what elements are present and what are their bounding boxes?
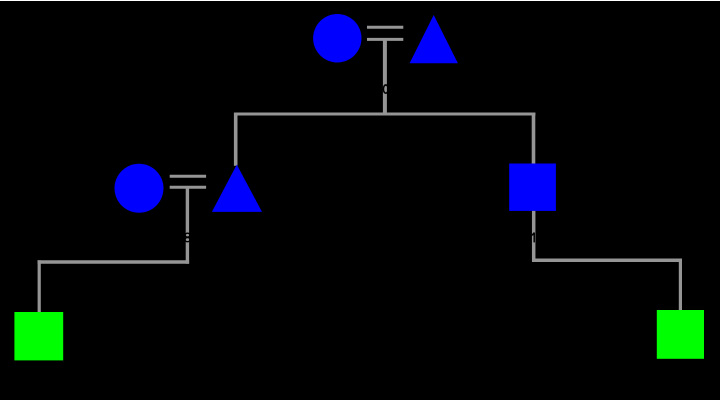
marriage double line II (upper bar): [170, 175, 206, 178]
child wire drop to III-1: [38, 260, 41, 312]
person II-2 (father, blue triangle): [212, 165, 262, 212]
person I-2 (father, blue triangle): [410, 15, 458, 63]
person III-2 (child, green square): [657, 310, 704, 359]
child connector wire (horizontal, left branch): [38, 260, 190, 263]
marriage double line II (lower bar): [170, 186, 206, 189]
person II-1 (mother, blue circle): [115, 164, 164, 213]
sibling bus wire generation II: [234, 113, 535, 116]
child connector wire (horizontal, right branch): [533, 259, 683, 263]
wire drop to II-2 (triangle): [234, 113, 238, 166]
person I-1 (mother, blue circle): [313, 14, 361, 62]
marriage double line I (lower bar): [367, 38, 403, 41]
child wire drop to III-2: [679, 259, 682, 311]
label 1 on descent wire II-3: [532, 233, 534, 243]
label 8 on descent wire II: [185, 233, 190, 242]
person II-3 (blue square): [509, 164, 556, 211]
descent wire from marriage I: [383, 39, 387, 115]
descent wire from II-3: [532, 211, 536, 262]
descent wire from marriage II: [186, 187, 189, 263]
label 0 on descent wire I: [383, 85, 388, 93]
marriage double line I (upper bar): [367, 26, 403, 29]
top border line: [0, 0, 720, 2]
person III-1 (child, green square): [14, 312, 63, 360]
wire drop to II-3 (square): [532, 113, 536, 164]
